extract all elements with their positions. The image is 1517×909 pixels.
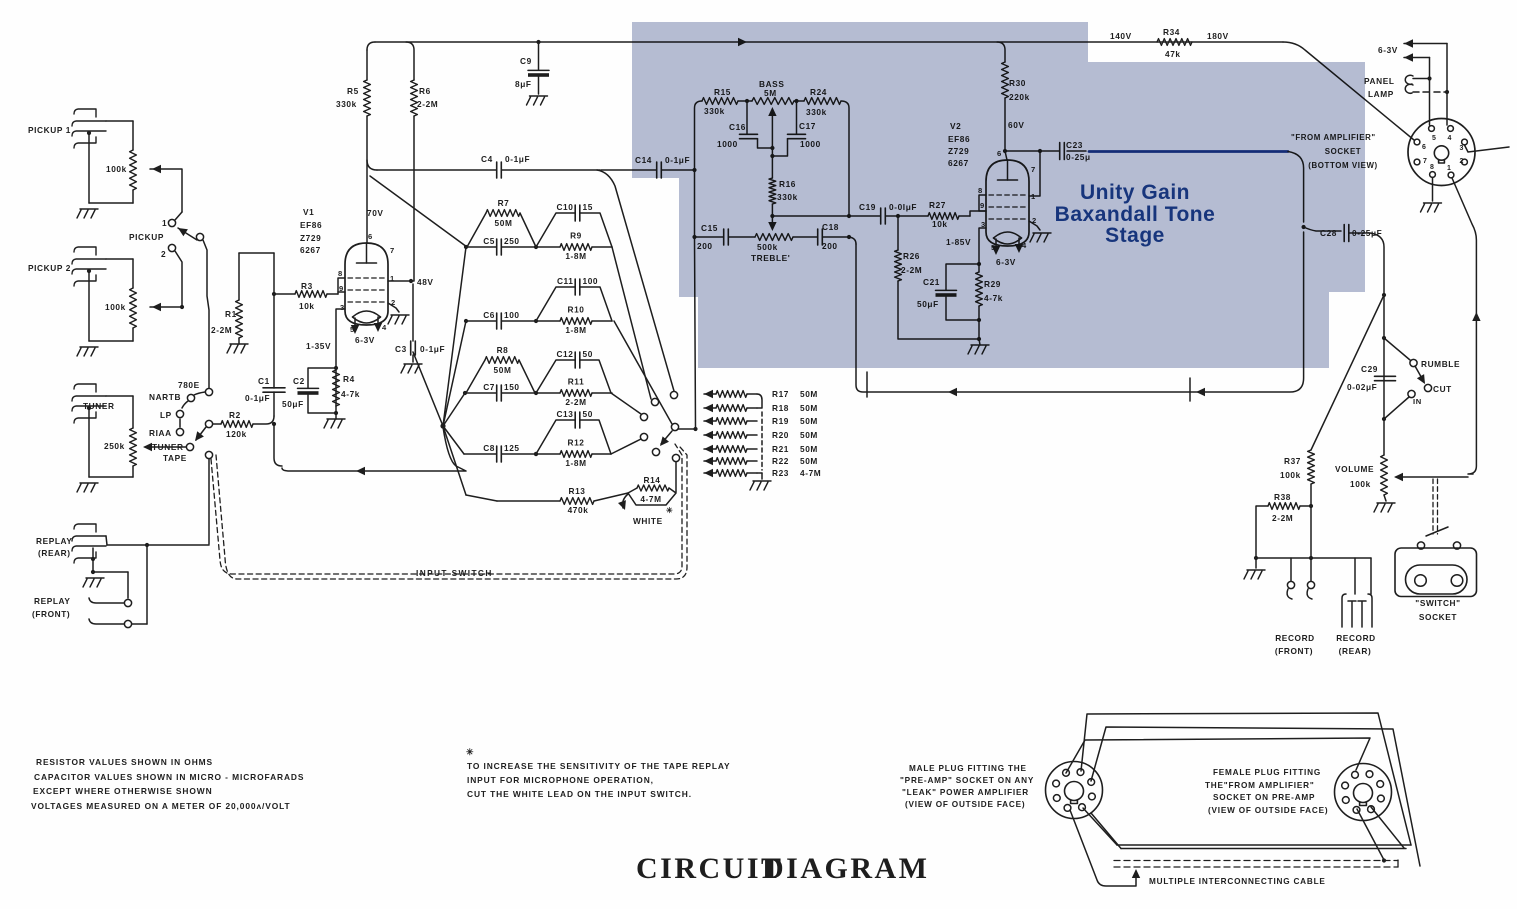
- female plug: [1335, 764, 1392, 821]
- ground: [388, 315, 409, 324]
- svg-text:2-2M: 2-2M: [565, 397, 586, 407]
- svg-text:SOCKET ON PRE-AMP: SOCKET ON PRE-AMP: [1213, 793, 1315, 802]
- svg-text:2-2M: 2-2M: [1272, 513, 1293, 523]
- svg-text:LAMP: LAMP: [1368, 89, 1394, 99]
- svg-text:C6: C6: [483, 310, 495, 320]
- capacitor C3 0.1uF: [395, 341, 445, 355]
- wire: [1288, 152, 1306, 230]
- svg-text:R11: R11: [568, 377, 585, 387]
- svg-text:2-2M: 2-2M: [417, 99, 438, 109]
- resistor R29 4.7k: [976, 272, 1003, 306]
- svg-text:1-8M: 1-8M: [565, 458, 586, 468]
- capacitor C17 1000: [788, 121, 821, 149]
- ground: [1374, 495, 1395, 512]
- svg-text:6-3V: 6-3V: [355, 335, 375, 345]
- svg-text:C13: C13: [556, 409, 573, 419]
- wire: [946, 264, 981, 322]
- svg-text:MALE PLUG FITTING THE: MALE PLUG FITTING THE: [909, 764, 1027, 773]
- svg-text:(VIEW OF OUTSIDE FACE): (VIEW OF OUTSIDE FACE): [1208, 806, 1328, 815]
- svg-text:R13: R13: [568, 486, 585, 496]
- svg-text:R20: R20: [772, 430, 789, 440]
- vacuum tube V2 EF86: [948, 121, 1029, 246]
- wire diagonal anode to ladder: [370, 176, 467, 247]
- svg-text:REPLAY: REPLAY: [36, 536, 73, 546]
- svg-text:PICKUP: PICKUP: [129, 232, 164, 242]
- svg-text:6: 6: [368, 232, 373, 241]
- svg-text:4: 4: [1448, 135, 1453, 142]
- svg-text:(REAR): (REAR): [1339, 646, 1372, 656]
- potentiometer 100k pickup1: [106, 150, 136, 190]
- svg-text:Stage: Stage: [1105, 224, 1165, 247]
- input jack REPLAY (REAR): [36, 524, 106, 563]
- svg-text:2: 2: [161, 249, 166, 259]
- svg-text:R19: R19: [772, 416, 789, 426]
- svg-text:3: 3: [340, 303, 345, 312]
- label INPUT SWITCH: [416, 568, 493, 578]
- wire: [367, 50, 384, 243]
- wire: [272, 422, 282, 466]
- svg-text:Unity Gain: Unity Gain: [1080, 181, 1190, 204]
- svg-text:R6: R6: [419, 86, 431, 96]
- capacitor C7 150 / resistor R11 2.2M row: [463, 377, 612, 408]
- svg-text:✳: ✳: [466, 747, 474, 757]
- resistor R8 50M: [466, 345, 535, 393]
- svg-text:50M: 50M: [800, 389, 818, 399]
- svg-text:47k: 47k: [1165, 49, 1181, 59]
- wire: [849, 214, 900, 218]
- svg-text:100k: 100k: [1280, 470, 1301, 480]
- svg-text:(FRONT): (FRONT): [32, 609, 70, 619]
- input jack PICKUP 1: [28, 109, 106, 148]
- wire: [150, 303, 182, 311]
- svg-text:PANEL: PANEL: [1364, 76, 1395, 86]
- svg-text:TUNER: TUNER: [152, 442, 184, 452]
- svg-text:7: 7: [390, 246, 395, 255]
- svg-text:WHITE: WHITE: [633, 516, 663, 526]
- wire swoop to selector: [597, 170, 674, 391]
- resistor R37 100k: [1280, 450, 1314, 484]
- capacitor C28 0.25uF: [1320, 225, 1382, 242]
- wire: [1349, 233, 1386, 455]
- capacitor C21 50uF electrolytic: [917, 277, 957, 309]
- svg-text:250k: 250k: [104, 441, 125, 451]
- wire 6.3V arrows: [1378, 39, 1447, 125]
- cathode wire V2: [946, 228, 986, 266]
- potentiometer VOLUME 100k: [1335, 455, 1387, 495]
- svg-text:R3: R3: [301, 281, 313, 291]
- potentiometer 100k pickup2: [105, 288, 136, 328]
- svg-text:8: 8: [1430, 164, 1435, 171]
- svg-text:Baxandall Tone: Baxandall Tone: [1055, 203, 1216, 226]
- resistor R3 10k: [295, 281, 327, 311]
- svg-text:4-7M: 4-7M: [800, 468, 821, 478]
- svg-text:1-8M: 1-8M: [565, 325, 586, 335]
- grid bracket V2: [979, 195, 986, 211]
- svg-text:V1: V1: [303, 207, 314, 217]
- wire: [692, 235, 755, 239]
- note capacitor values: [34, 772, 304, 782]
- replay front contacts: [89, 598, 132, 628]
- capacitor C19 0.01uF: [859, 202, 917, 224]
- wire pin3 stub: [1465, 145, 1510, 152]
- svg-text:120k: 120k: [226, 429, 247, 439]
- wire: [87, 269, 133, 341]
- cathode wire V1: [334, 309, 345, 406]
- wire: [601, 168, 697, 172]
- wire: [203, 240, 209, 388]
- svg-text:INPUT SWITCH: INPUT SWITCH: [416, 568, 493, 578]
- svg-text:8: 8: [338, 269, 343, 278]
- svg-text:VOLTAGES MEASURED ON A MET: VOLTAGES MEASURED ON A METER OF 20,000ʌ/…: [31, 801, 291, 811]
- wire: [308, 368, 336, 413]
- svg-text:50μF: 50μF: [282, 399, 304, 409]
- svg-text:3: 3: [1460, 145, 1465, 152]
- wire: [772, 214, 851, 218]
- svg-text:470k: 470k: [568, 505, 589, 515]
- ground: [1030, 233, 1051, 242]
- svg-text:180V: 180V: [1207, 31, 1229, 41]
- switch rumble cut: [1384, 338, 1460, 419]
- svg-text:250: 250: [504, 236, 520, 246]
- ground: [77, 347, 98, 356]
- svg-text:R23: R23: [772, 468, 789, 478]
- svg-text:MULTIPLE INTERCONNECTING CAB: MULTIPLE INTERCONNECTING CABLE: [1149, 877, 1326, 886]
- wire: [695, 99, 850, 216]
- wire: [143, 443, 186, 451]
- resistor R38 2.2M: [1268, 492, 1300, 523]
- svg-text:R22: R22: [772, 456, 789, 466]
- svg-text:6: 6: [1422, 144, 1427, 151]
- svg-text:C5: C5: [483, 236, 495, 246]
- potentiometer BASS 5M: [752, 79, 794, 146]
- title CIRCUIT DIAGRAM: [636, 852, 930, 885]
- svg-text:C2: C2: [293, 376, 305, 386]
- capacitor C10 15: [536, 202, 612, 247]
- svg-text:100: 100: [504, 310, 520, 320]
- wire anode to C4: [367, 160, 377, 170]
- cable dashed: [1114, 860, 1398, 867]
- pin labels V1: [338, 232, 396, 334]
- wire: [1254, 506, 1311, 568]
- svg-text:CAPACITOR VALUES SHOWN IN: CAPACITOR VALUES SHOWN IN MICRO - MICROF…: [34, 772, 304, 782]
- resistor R16 330k: [769, 178, 798, 204]
- panel lamp: [1364, 75, 1449, 99]
- note tape replay 2: [467, 775, 654, 785]
- note dagger: [466, 747, 474, 757]
- resistor R4 4.7k: [333, 370, 360, 406]
- svg-text:100: 100: [583, 276, 599, 286]
- capacitor C5 250 / resistor R9 1.8M row: [464, 231, 612, 262]
- svg-text:6267: 6267: [300, 245, 321, 255]
- wire: [1283, 42, 1414, 140]
- svg-text:50M: 50M: [800, 456, 818, 466]
- svg-text:R18: R18: [772, 403, 789, 413]
- resistor R26 2.2M: [895, 250, 923, 281]
- wire: [106, 121, 133, 150]
- socket SWITCH: [1395, 548, 1477, 597]
- wire pin2 ground V2: [1029, 221, 1040, 230]
- svg-text:50M: 50M: [800, 403, 818, 413]
- svg-text:100k: 100k: [106, 164, 127, 174]
- svg-text:50M: 50M: [800, 444, 818, 454]
- svg-text:CUT: CUT: [1433, 384, 1452, 394]
- svg-text:C29: C29: [1361, 364, 1378, 374]
- wire: [1309, 484, 1313, 581]
- dashed link input switch: [211, 444, 687, 579]
- svg-text:Z729: Z729: [300, 233, 321, 243]
- wire: [536, 40, 540, 94]
- svg-text:48V: 48V: [417, 277, 434, 287]
- svg-text:RIAA: RIAA: [149, 428, 172, 438]
- male plug: [1046, 762, 1103, 819]
- wire: [106, 259, 133, 288]
- label RECORD FRONT: [1275, 633, 1315, 656]
- svg-text:C9: C9: [520, 56, 532, 66]
- svg-text:CUT THE WHITE LEAD ON THE: CUT THE WHITE LEAD ON THE INPUT SWITCH.: [467, 789, 692, 799]
- wire: [770, 101, 796, 158]
- wire: [239, 253, 274, 300]
- ground: [527, 96, 548, 105]
- wire diagonal to R37: [1311, 295, 1384, 450]
- wire: [377, 169, 600, 171]
- svg-text:RESISTOR VALUES SHOWN IN O: RESISTOR VALUES SHOWN IN OHMS: [36, 757, 213, 767]
- wire: [978, 264, 980, 339]
- highlight overlay Baxandall tone stage: [632, 22, 1365, 368]
- resistor R34 47k: [1110, 27, 1229, 59]
- svg-text:7: 7: [1423, 158, 1428, 165]
- svg-text:6-3V: 6-3V: [1378, 45, 1398, 55]
- svg-text:1: 1: [1447, 165, 1452, 172]
- wire HT top bus: [367, 38, 1283, 50]
- capacitor C4 0.1uF: [481, 154, 530, 178]
- svg-text:50: 50: [583, 349, 593, 359]
- svg-text:1-8M: 1-8M: [565, 251, 586, 261]
- input jack PICKUP 2: [28, 247, 106, 286]
- svg-text:R21: R21: [772, 444, 789, 454]
- svg-text:C10: C10: [556, 202, 573, 212]
- wire tone input rail lower: [695, 170, 696, 429]
- svg-text:✳: ✳: [666, 506, 673, 515]
- anode wire V1 pin1 48V: [388, 277, 434, 287]
- resistor R27 10k: [928, 200, 959, 229]
- svg-text:PICKUP 2: PICKUP 2: [28, 263, 71, 273]
- wire: [997, 42, 1025, 160]
- svg-text:R38: R38: [1274, 492, 1291, 502]
- wire: [132, 545, 147, 624]
- note resistor values: [36, 757, 213, 767]
- svg-text:C12: C12: [556, 349, 573, 359]
- svg-text:4-7k: 4-7k: [341, 389, 360, 399]
- resistor R1 2.2M: [211, 300, 242, 338]
- svg-text:"SWITCH": "SWITCH": [1415, 598, 1460, 608]
- resistor R14 4.7M: [618, 462, 676, 526]
- svg-text:EF86: EF86: [300, 220, 322, 230]
- label 1.35V: [306, 341, 331, 351]
- capacitor C12 50: [536, 349, 611, 393]
- switch feedback selector contacts: [640, 391, 679, 461]
- switch input selector TUNER/TAPE: [152, 420, 213, 463]
- svg-text:THE"FROM AMPLIFIER": THE"FROM AMPLIFIER": [1205, 781, 1315, 790]
- svg-text:780E: 780E: [178, 380, 200, 390]
- feedback loop bus tone stage: [856, 232, 1304, 396]
- svg-text:REPLAY: REPLAY: [34, 596, 71, 606]
- cable curl: [1070, 810, 1140, 886]
- resistor R24 330k: [804, 87, 841, 117]
- svg-text:RECORD: RECORD: [1275, 633, 1315, 643]
- wire record bus: [1256, 558, 1371, 594]
- wire feedback bus lower: [282, 427, 466, 475]
- label female plug: [1205, 768, 1328, 815]
- svg-text:DIAGRAM: DIAGRAM: [762, 852, 930, 885]
- wire: [208, 459, 210, 544]
- svg-text:5: 5: [1432, 135, 1437, 142]
- wire: [91, 548, 128, 574]
- record front contacts: [1287, 581, 1315, 599]
- svg-text:EXCEPT WHERE OTHERWISE SHOW: EXCEPT WHERE OTHERWISE SHOWN: [33, 786, 213, 796]
- svg-text:RECORD: RECORD: [1336, 633, 1376, 643]
- label SWITCH SOCKET: [1415, 598, 1460, 622]
- input jack REPLAY (FRONT): [32, 596, 71, 619]
- wire: [612, 247, 651, 399]
- input jack TUNER: [72, 384, 115, 423]
- note voltages: [31, 801, 291, 811]
- potentiometer TREBLE 500k: [751, 234, 793, 263]
- wire: [898, 216, 981, 341]
- svg-text:150: 150: [504, 382, 520, 392]
- dashed link volume to switch: [1433, 479, 1438, 534]
- resistor R13 470k: [466, 486, 628, 515]
- wire: [849, 237, 856, 244]
- resistor R30 220k: [1002, 62, 1030, 102]
- wire: [768, 146, 776, 231]
- svg-text:1: 1: [162, 218, 167, 228]
- svg-text:TO INCREASE THE SENSITIVITY: TO INCREASE THE SENSITIVITY OF THE TAPE …: [467, 761, 731, 771]
- svg-text:125: 125: [504, 443, 520, 453]
- wire crossing tick: [1189, 378, 1191, 401]
- wire: [213, 416, 274, 424]
- svg-text:8μF: 8μF: [515, 79, 532, 89]
- svg-text:R4: R4: [343, 374, 355, 384]
- svg-text:R34: R34: [1163, 27, 1180, 37]
- node ladder vertex: [440, 423, 445, 428]
- svg-text:C1: C1: [258, 376, 270, 386]
- wire: [1304, 227, 1341, 231]
- vacuum tube V1 EF86: [300, 207, 388, 325]
- resistor bank R17-R23: [704, 389, 821, 479]
- wire: [273, 294, 275, 416]
- ground: [1244, 570, 1265, 579]
- wire ladder fan: [443, 247, 466, 495]
- wire: [614, 321, 672, 424]
- capacitor C8 125 / resistor R12 1.8M row: [464, 438, 611, 469]
- wire: [406, 42, 414, 281]
- svg-text:100k: 100k: [105, 302, 126, 312]
- capacitor C15 200: [697, 223, 728, 251]
- capacitor C1 0.1uF: [245, 376, 285, 403]
- cable ribbon: [1066, 713, 1420, 866]
- svg-text:RUMBLE: RUMBLE: [1421, 359, 1460, 369]
- capacitor C9 8uF electrolytic: [515, 56, 549, 89]
- svg-text:2: 2: [1460, 158, 1465, 165]
- switch record-characteristic selector: [149, 380, 213, 438]
- wire volume wiper: [1394, 473, 1468, 481]
- heater arrows V1: [351, 317, 382, 345]
- socket FROM AMPLIFIER: [1408, 119, 1475, 186]
- svg-text:R7: R7: [498, 198, 510, 208]
- wire: [87, 131, 133, 203]
- capacitor C6 100 / resistor R10 1.8M row: [464, 305, 612, 336]
- label multiple interconnecting cable: [1149, 877, 1326, 886]
- resistor R6 2.2M: [411, 80, 439, 116]
- wire: [898, 211, 986, 216]
- wire: [793, 235, 851, 239]
- capacitor C11 100: [536, 276, 612, 321]
- svg-text:VOLUME: VOLUME: [1335, 464, 1374, 474]
- capacitor C13 50: [536, 409, 611, 454]
- svg-text:(FRONT): (FRONT): [1275, 646, 1313, 656]
- wire: [272, 292, 338, 296]
- svg-text:R5: R5: [347, 86, 359, 96]
- grid bracket V1: [338, 278, 345, 292]
- capacitor C2 50uF electrolytic: [282, 376, 319, 409]
- wire: [150, 165, 182, 212]
- svg-text:0-1μF: 0-1μF: [245, 393, 270, 403]
- heater arrows V2: [992, 238, 1023, 267]
- capacitor C18 200: [818, 222, 839, 251]
- svg-text:PICKUP 1: PICKUP 1: [28, 125, 71, 135]
- note except: [33, 786, 213, 796]
- svg-text:C3: C3: [395, 344, 407, 354]
- label male plug: [900, 764, 1034, 809]
- ground: [968, 339, 989, 354]
- svg-text:4-7M: 4-7M: [640, 494, 661, 504]
- svg-text:100k: 100k: [1350, 479, 1371, 489]
- svg-text:R12: R12: [567, 438, 584, 448]
- wire anode V2: [1005, 149, 1042, 196]
- svg-text:SOCKET: SOCKET: [1419, 612, 1457, 622]
- svg-text:50M: 50M: [800, 430, 818, 440]
- ground: [227, 338, 248, 353]
- ground: [324, 411, 345, 428]
- svg-text:70V: 70V: [367, 208, 384, 218]
- svg-text:R2: R2: [229, 410, 241, 420]
- svg-text:"PRE-AMP" SOCKET ON ANY: "PRE-AMP" SOCKET ON ANY: [900, 776, 1034, 785]
- svg-text:(REAR): (REAR): [38, 548, 71, 558]
- svg-text:50M: 50M: [494, 365, 512, 375]
- svg-text:0-02μF: 0-02μF: [1347, 382, 1377, 392]
- svg-text:330k: 330k: [336, 99, 357, 109]
- svg-text:0-1μF: 0-1μF: [505, 154, 530, 164]
- ground: [750, 481, 771, 490]
- svg-text:0-1μF: 0-1μF: [420, 344, 445, 354]
- ground: [83, 578, 104, 587]
- svg-text:NARTB: NARTB: [149, 392, 181, 402]
- svg-text:R10: R10: [567, 305, 584, 315]
- record rear contacts: [1342, 594, 1372, 627]
- ground: [401, 364, 422, 373]
- svg-text:FEMALE PLUG FITTING: FEMALE PLUG FITTING: [1213, 768, 1321, 777]
- wire: [611, 439, 641, 454]
- svg-text:TAPE: TAPE: [163, 453, 187, 463]
- resistor R15 330k: [702, 87, 738, 116]
- wire: [678, 427, 698, 431]
- svg-text:R9: R9: [570, 231, 582, 241]
- wire: [1432, 178, 1434, 202]
- capacitor C29 0.02uF: [1347, 364, 1396, 392]
- wire: [127, 572, 129, 598]
- svg-text:INPUT FOR MICROPHONE OPERAT: INPUT FOR MICROPHONE OPERATION,: [467, 775, 654, 785]
- label RECORD REAR: [1336, 633, 1376, 656]
